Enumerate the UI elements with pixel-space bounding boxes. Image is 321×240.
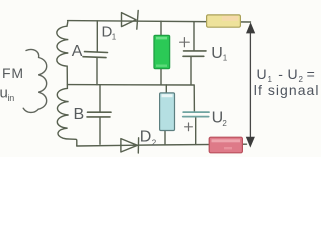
svg-text:2: 2 [152,139,157,148]
svg-text:1: 1 [112,33,117,42]
svg-text:=: = [307,66,315,82]
svg-text:FM: FM [2,65,24,81]
svg-text:-: - [278,66,283,82]
svg-text:B: B [74,106,85,123]
svg-text:1: 1 [223,54,228,63]
svg-text:in: in [8,93,15,103]
svg-text:2: 2 [222,119,227,128]
svg-text:U: U [257,66,267,82]
svg-text:D: D [140,128,152,145]
svg-text:A: A [72,43,83,60]
svg-text:U: U [288,66,298,82]
svg-text:lf signaal: lf signaal [254,82,320,98]
svg-text:U: U [211,45,223,62]
